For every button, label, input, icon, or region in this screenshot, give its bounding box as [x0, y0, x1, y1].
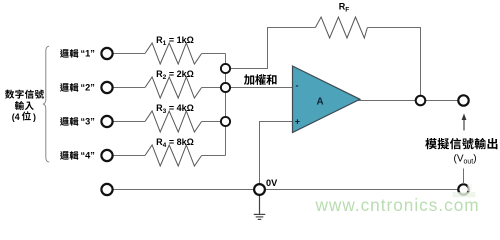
label: logic input "2"	[60, 83, 95, 93]
svg-text:www.cntronics.com: www.cntronics.com	[315, 195, 480, 215]
svg-text:A: A	[316, 97, 323, 108]
summing bus junction node (op-amp input)	[221, 83, 230, 92]
svg-text:“1”: “1”	[81, 49, 95, 59]
label: logic input "3"	[60, 117, 95, 127]
svg-text:-: -	[296, 81, 299, 91]
input terminal 4	[101, 150, 112, 161]
wire from resistor R4 to summing bus	[202, 155, 226, 157]
svg-text:): )	[33, 112, 36, 122]
wire from input terminal 3 to resistor R3	[113, 121, 146, 123]
ground symbol	[254, 195, 266, 219]
svg-text:0V: 0V	[266, 178, 278, 188]
label: logic input "4"	[60, 151, 95, 161]
bottom-left 0V terminal	[101, 184, 112, 195]
wire from input terminal 4 to resistor R4	[113, 155, 146, 157]
svg-text:“3”: “3”	[81, 117, 95, 127]
label: digital signal input (4-bit) text block	[5, 90, 44, 110]
wire from resistor R3 to summing bus	[202, 121, 226, 123]
svg-text:+: +	[295, 116, 300, 126]
wire from Rf to output node	[367, 28, 420, 101]
resistor Rf zigzag	[315, 17, 367, 38]
wire from op-amp non-inverting input to 0V line	[260, 122, 293, 190]
wire from summing node to feedback resistor Rf	[226, 28, 316, 69]
wire: 0V ground rail	[113, 189, 459, 191]
resistor R4 zigzag	[145, 145, 202, 166]
output terminal Vout	[458, 95, 468, 105]
wire from resistor R2 to summing bus	[202, 87, 226, 89]
svg-text:(4: (4	[12, 112, 20, 122]
input terminal 1	[101, 48, 112, 59]
wire segment above bottom-right terminal	[463, 169, 465, 185]
resistor R2 zigzag	[145, 77, 202, 98]
resistor R3 zigzag	[145, 111, 202, 132]
input terminal 2	[101, 82, 112, 93]
wire from op-amp output to output terminal	[356, 100, 464, 102]
summing bus junction node (R3)	[221, 117, 230, 126]
svg-text:“4”: “4”	[81, 151, 95, 161]
input terminal 3	[101, 116, 112, 127]
summing bus junction node (feedback tap)	[221, 64, 230, 73]
watermark overlap highlight on terminal	[453, 192, 476, 197]
svg-text:“2”: “2”	[81, 83, 95, 93]
brace grouping 4 inputs	[43, 46, 49, 162]
output junction node (feedback)	[416, 96, 426, 106]
resistor R1 zigzag	[145, 43, 202, 64]
wire from resistor R1 to summing bus	[202, 53, 226, 55]
node label: weighted sum (加權和)	[244, 74, 277, 85]
ground junction node at 0V	[254, 184, 265, 195]
wire: summing bus vertical	[225, 54, 227, 156]
label: logic input "1"	[60, 49, 95, 59]
op-amp U1 (A)	[293, 66, 361, 133]
wire from input terminal 1 to resistor R1	[113, 53, 146, 55]
output annotation arrow	[462, 114, 467, 131]
wire from summing node to op-amp inverting input	[226, 87, 293, 89]
label: (4位)	[12, 111, 36, 121]
bottom-right 0V terminal	[458, 184, 468, 194]
wire from input terminal 2 to resistor R2	[113, 87, 146, 89]
label: analog signal output (模擬信號輸出)	[425, 138, 497, 149]
